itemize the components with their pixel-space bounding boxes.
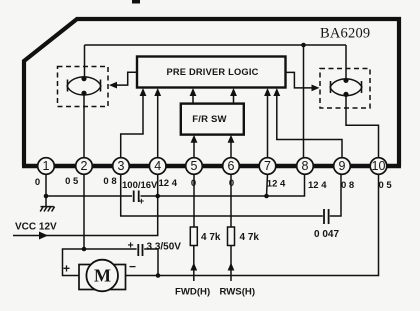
svg-text:6: 6: [228, 159, 235, 173]
wire: 0.047 cap to pin 9: [330, 174, 341, 216]
wire: right driver to pin 10: [346, 94, 379, 158]
wire: cap to motor - node: [144, 249, 158, 276]
svg-text:0 5: 0 5: [379, 180, 393, 191]
ground symbol: [40, 207, 54, 212]
wire: internal VCC top rail: [85, 44, 347, 46]
wire: F/R SW to PDL (right arrow): [233, 91, 235, 104]
svg-text:2: 2: [81, 159, 88, 173]
pin 1: [38, 158, 55, 175]
IC body outline BA6209: [24, 19, 399, 166]
svg-text:100/16V: 100/16V: [122, 180, 158, 191]
wire: motor - to pin 10: [126, 174, 379, 275]
wire: PDL to right driver (arrow): [286, 72, 317, 88]
svg-text:4: 4: [154, 159, 161, 173]
wire: F/R SW to PDL (left arrow): [192, 91, 194, 104]
svg-text:VCC 12V: VCC 12V: [15, 222, 57, 233]
svg-text:9: 9: [339, 159, 346, 173]
right output driver symbol: [330, 78, 362, 97]
svg-text:4 7k: 4 7k: [240, 232, 260, 243]
scan smudge top edge: [132, 0, 140, 4]
junction pin1/ground rail: [44, 194, 49, 199]
pin 5: [186, 158, 203, 175]
svg-text:PRE DRIVER LOGIC: PRE DRIVER LOGIC: [166, 67, 258, 77]
junction pin4/VCC rail: [155, 194, 160, 199]
svg-text:8: 8: [302, 159, 309, 173]
svg-text:4 7k: 4 7k: [201, 232, 221, 243]
svg-text:BA6209: BA6209: [320, 26, 370, 42]
svg-text:+: +: [128, 240, 134, 252]
svg-text:5: 5: [191, 159, 198, 173]
wire: ground rail to bypass cap: [46, 195, 132, 197]
junction pin7/VCC rail: [264, 194, 269, 199]
svg-text:0: 0: [35, 177, 40, 188]
junction pin2/motor top wire: [82, 247, 87, 252]
resistor 4.7k (RWS): [230, 174, 232, 227]
svg-text:−: −: [129, 260, 136, 274]
wire: pin 3 riser to PDL: [121, 91, 143, 158]
svg-text:10: 10: [372, 159, 386, 173]
resistor 4.7k (FWD): [193, 174, 195, 227]
pin 2: [76, 158, 93, 175]
wire: pin 4 riser to PDL: [157, 91, 159, 158]
junction pin8/VCC rail: [301, 43, 306, 48]
svg-text:12 4: 12 4: [308, 180, 327, 191]
wire: pin 9 riser to PDL: [277, 91, 342, 158]
left output driver symbol: [67, 76, 101, 96]
left output driver dashed box: [58, 67, 109, 107]
svg-text:RWS(H): RWS(H): [220, 287, 256, 298]
svg-text:12 4: 12 4: [267, 179, 286, 190]
svg-text:FWD(H): FWD(H): [175, 287, 210, 298]
svg-text:1: 1: [43, 159, 50, 173]
wire: VCC rail (cap to pin 8): [141, 174, 305, 196]
svg-text:M: M: [94, 265, 111, 285]
wire: pin 7 riser to PDL: [267, 91, 269, 158]
motor body: [79, 265, 126, 290]
wire: drop to left driver top: [84, 45, 86, 79]
pin 8: [297, 158, 314, 175]
pin 4: [149, 158, 166, 175]
svg-text:12 4: 12 4: [159, 178, 178, 189]
wire: pin 7 stub to VCC rail: [267, 174, 268, 196]
svg-text:7: 7: [264, 159, 271, 173]
pin 10: [370, 158, 387, 175]
wire: pin 6 riser to F/R SW: [230, 139, 232, 159]
pin 3: [113, 158, 130, 175]
svg-text:3 3/50V: 3 3/50V: [147, 242, 182, 253]
svg-text:0 5: 0 5: [65, 176, 79, 187]
pin 6: [223, 158, 240, 175]
F/R SW box: [181, 104, 244, 135]
wire: PDL to left driver (arrow): [112, 72, 137, 85]
wire: left driver to pin 2: [83, 93, 85, 158]
svg-text:0 8: 0 8: [341, 180, 354, 191]
svg-text:0 8: 0 8: [103, 176, 116, 187]
motor M circle: [86, 260, 118, 292]
pre driver logic box: [137, 57, 286, 88]
wire: VCC input line to pin 4: [13, 174, 158, 235]
wire: motor + side: [63, 249, 137, 276]
arrow on VCC line: [39, 232, 48, 240]
wire: drop to right driver top: [345, 45, 347, 80]
svg-text:F/R SW: F/R SW: [192, 114, 226, 125]
svg-text:0 047: 0 047: [314, 229, 339, 240]
wire: pin 2 drop to motor: [83, 174, 85, 249]
junction motor - node: [156, 273, 161, 278]
svg-text:+: +: [139, 196, 145, 207]
capacitor 3.3/50V: [128, 240, 143, 257]
right output driver dashed box: [320, 69, 370, 109]
IC bottom edge (pin rail): [22, 164, 401, 169]
wire: pin 5 riser to F/R SW: [193, 139, 195, 159]
wire: pin 1 to ground: [45, 174, 47, 206]
pin 7: [259, 158, 276, 175]
svg-text:3: 3: [118, 159, 125, 173]
svg-text:+: +: [63, 262, 70, 276]
wire: pin 8 riser to VCC rail: [303, 45, 305, 158]
capacitor 0.047: [324, 209, 329, 224]
capacitor 100/16V (bypass): [134, 191, 145, 207]
wire: pin 3 drop to snubber rail: [121, 174, 323, 216]
pin 9: [334, 158, 351, 175]
